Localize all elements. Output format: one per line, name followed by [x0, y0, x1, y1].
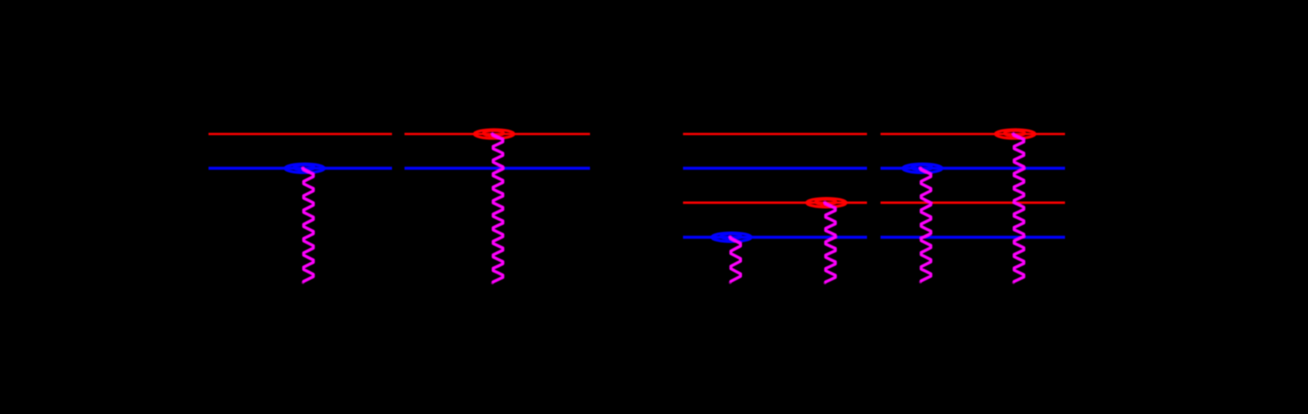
left diagram photon wave from red level: [493, 134, 503, 283]
left diagram photon wave from blue level: [303, 168, 313, 282]
right diagram level 1 (blue) right segment: [881, 236, 1066, 239]
right diagram red vertex loop on level 4: [995, 130, 1035, 139]
left diagram upper level (red) right segment: [405, 133, 591, 135]
right diagram blue vertex loop on level 1: [712, 233, 752, 242]
left diagram lower level (blue) left segment: [209, 167, 393, 170]
left diagram blue vertex loop: [285, 164, 325, 173]
right diagram level 1 (blue) left segment: [683, 236, 867, 239]
right diagram red vertex loop on level 2: [807, 198, 847, 207]
right diagram photon wave from level 4: [1014, 134, 1024, 283]
right diagram photon wave from level 1: [730, 237, 740, 282]
right diagram photon wave from level 2: [825, 203, 835, 283]
right diagram level 4 (red) left segment: [683, 133, 867, 135]
right diagram level 3 (blue) left segment: [683, 167, 867, 170]
right diagram level 2 (red) right segment: [881, 202, 1066, 204]
right diagram level 4 (red) right segment: [881, 133, 1066, 135]
right diagram level 3 (blue) right segment: [881, 167, 1066, 170]
right diagram level 2 (red) left segment: [683, 202, 867, 204]
right diagram blue vertex loop on level 3: [903, 164, 943, 173]
left diagram upper level (red) left segment: [209, 133, 393, 135]
left diagram red vertex loop: [474, 130, 514, 139]
left diagram lower level (blue) right segment: [405, 167, 591, 170]
right diagram photon wave from level 3: [921, 168, 931, 282]
